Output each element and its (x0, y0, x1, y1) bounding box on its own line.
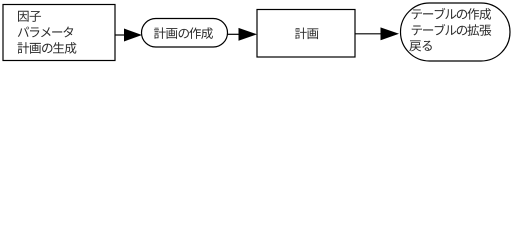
text line: パラメータ (18, 27, 73, 38)
text: テーブルの作成 (412, 8, 491, 20)
stadium: 計画の作成 (142, 19, 228, 48)
box: 計画 (257, 10, 355, 58)
arrow 3 (355, 28, 398, 40)
stadium: テーブルの作成/テーブルの拡張/戻る (401, 3, 511, 61)
arrow 2 (228, 29, 256, 41)
text: 戻る (409, 40, 431, 51)
text: 計画 (295, 28, 318, 40)
arrow 1 (116, 29, 141, 41)
box: 因子/パラメータ/計画の生成 (3, 5, 115, 61)
text line: 因子 (18, 11, 41, 22)
text: テーブルの拡張 (412, 24, 492, 36)
text line: 計画の生成 (17, 42, 76, 54)
text: 計画の作成 (154, 27, 213, 39)
